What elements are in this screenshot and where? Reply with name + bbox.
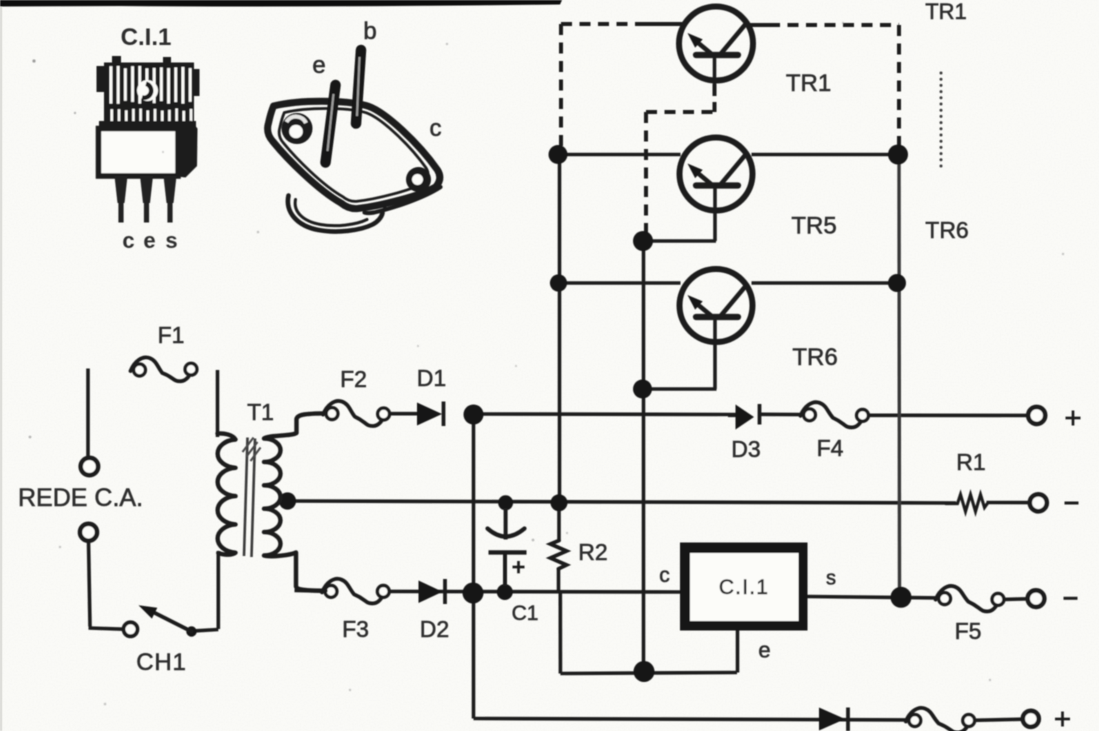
svg-text:T1: T1 (247, 399, 274, 425)
svg-text:c: c (430, 115, 442, 142)
svg-text:F3: F3 (342, 616, 369, 642)
svg-text:e: e (143, 228, 155, 253)
svg-text:b: b (363, 18, 376, 45)
svg-text:F2: F2 (340, 366, 367, 392)
svg-text:R1: R1 (956, 449, 985, 475)
svg-text:c: c (122, 228, 134, 253)
svg-text:TR6: TR6 (925, 217, 968, 243)
svg-text:D2: D2 (420, 616, 449, 642)
svg-text:C1: C1 (512, 602, 539, 625)
svg-text:R2: R2 (578, 539, 607, 565)
svg-text:s: s (165, 228, 177, 253)
svg-text:e: e (312, 52, 325, 79)
svg-text:REDE C.A.: REDE C.A. (18, 484, 143, 512)
svg-text:F5: F5 (955, 618, 982, 644)
svg-text:C.I.1: C.I.1 (719, 576, 769, 599)
svg-text:c: c (659, 564, 670, 587)
svg-text:e: e (758, 638, 770, 663)
svg-text:D3: D3 (731, 436, 760, 462)
svg-text:s: s (826, 568, 836, 590)
svg-text:TR1: TR1 (786, 70, 831, 97)
svg-text:TR6: TR6 (792, 344, 837, 371)
svg-text:C.I.1: C.I.1 (121, 24, 172, 51)
svg-text:TR1: TR1 (925, 0, 967, 24)
svg-text:F4: F4 (817, 435, 844, 461)
svg-text:F1: F1 (158, 322, 185, 348)
svg-text:CH1: CH1 (136, 649, 186, 676)
svg-text:TR5: TR5 (791, 213, 836, 240)
svg-text:D1: D1 (417, 365, 446, 391)
